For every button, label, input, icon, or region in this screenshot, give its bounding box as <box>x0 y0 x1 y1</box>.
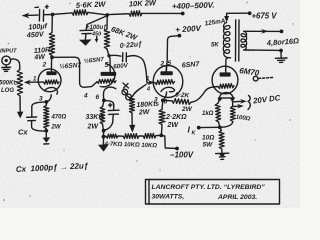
wire secondary bottom tap <box>244 49 283 58</box>
wire 180K down-arrow to feedback rail <box>129 113 135 133</box>
ground arrow below rail-left <box>98 137 109 152</box>
wire 10K to B+ terminal (thin) <box>142 12 182 14</box>
svg-text:500Kʦ: 500Kʦ <box>0 81 18 87</box>
svg-text:5·6K 2W: 5·6K 2W <box>76 0 107 10</box>
svg-text:2W: 2W <box>167 122 180 129</box>
node rail-right junction dot <box>159 134 163 138</box>
svg-text:2: 2 <box>160 61 165 68</box>
wire +200V to tube3 plates <box>166 36 179 72</box>
wire Ik measuring tap <box>188 125 219 137</box>
wire: ground-arrow feed to first filter cap <box>22 13 38 19</box>
svg-text:3: 3 <box>154 97 158 104</box>
svg-text:+675 V: +675 V <box>252 12 278 21</box>
svg-text:1: 1 <box>146 76 149 82</box>
svg-text:5W: 5W <box>203 142 214 149</box>
svg-text:4: 4 <box>146 87 150 93</box>
wire node A to resistor 5.6K <box>54 13 72 14</box>
svg-text:6·2K: 6·2K <box>175 92 191 100</box>
ground under jack <box>2 65 11 72</box>
svg-text:½6SN7: ½6SN7 <box>59 61 82 71</box>
svg-text:+100uƒ: +100uƒ <box>86 25 107 31</box>
ground under C2 <box>79 39 92 45</box>
wire pot bottom to ground arrow <box>17 96 24 118</box>
capacitor C2 +100uF 450 (decoupler) <box>80 25 107 43</box>
node B junction dot <box>105 13 109 17</box>
node V1b cathode top junction dot <box>102 99 106 103</box>
svg-text:5: 5 <box>105 62 109 69</box>
svg-text:4W: 4W <box>33 54 46 62</box>
svg-text:+ 200V: + 200V <box>175 24 202 35</box>
svg-text:10Ω: 10Ω <box>202 135 214 142</box>
wire node N1 down-left to 180K <box>133 85 147 97</box>
resistor R 2.2K 2W (to bias rail) <box>159 101 187 136</box>
svg-text:4: 4 <box>83 93 88 100</box>
wire rail to -100V terminal <box>161 136 194 160</box>
node cathode junction dot <box>218 125 222 129</box>
wire secondary top tap with arrow <box>244 29 283 34</box>
resistor R 100ohm (right cathode branch) <box>222 100 251 128</box>
node B+ terminal dot, +400-500V <box>172 1 215 16</box>
feedback rail: resistor 10K (b) <box>139 133 160 138</box>
wire node B diagonal to decoupling cap <box>86 16 106 30</box>
node cathode bottom junction dot <box>44 129 48 133</box>
scribble (crossed-out pin notes) near V1b <box>122 83 132 100</box>
resistor R 33K 2W (V1b cathode) <box>86 101 105 131</box>
node grid network N1 with arrow into V2 grid <box>146 76 155 93</box>
capacitor Cx (cathode bypass, left loop) <box>18 102 45 137</box>
transformer core <box>236 20 240 61</box>
feedback rail: resistor 4.7K <box>104 134 119 138</box>
svg-text:2W: 2W <box>138 109 151 117</box>
node +200V terminal <box>175 24 202 38</box>
node rail-left junction dots <box>102 129 106 133</box>
svg-text:LANCROFT PTY. LTD. “LYREBIRD”: LANCROFT PTY. LTD. “LYREBIRD” <box>152 184 266 191</box>
transformer T1 primary winding 5K 125mA <box>204 18 230 58</box>
resistor R 68K 2W (stage2 plate load) <box>104 17 139 56</box>
svg-text:33Kʦ: 33Kʦ <box>86 114 105 121</box>
svg-text:5K: 5K <box>211 43 219 49</box>
svg-text:30WATTS,: 30WATTS, <box>152 194 185 201</box>
feedback rail: resistor 10K (a) <box>118 134 139 139</box>
svg-text:2·2KΩ: 2·2KΩ <box>165 114 187 121</box>
arrows to 20V DC note <box>232 93 281 109</box>
capacitor C 100uF 450V (first filter) <box>26 5 49 39</box>
resistor R 10ohm 5W (cathode to ground) <box>202 128 224 150</box>
svg-text:Cx: Cx <box>18 128 28 137</box>
wire 5.6K to node B <box>88 12 106 14</box>
scan speckles <box>3 2 294 201</box>
resistor R 470ohm 2W (V1a cathode) <box>44 102 67 131</box>
pot wiper arrow to tube1 grid <box>24 77 44 86</box>
svg-text:450V: 450V <box>26 29 46 39</box>
node V3 cathode right pin <box>231 97 235 101</box>
wire cap to node A <box>44 14 53 16</box>
title block box <box>146 180 280 205</box>
svg-text:6: 6 <box>96 94 100 101</box>
resistor R 10K 2W <box>129 0 157 16</box>
potentiometer 500K LOG <box>0 70 23 97</box>
node V1b plate junction dot <box>107 54 110 57</box>
svg-text:2: 2 <box>42 62 47 69</box>
node cathode V1a junction dot <box>45 100 49 104</box>
resistor R 110R 4W (V1a plate load) <box>33 16 54 62</box>
pentode V3 6M70 output <box>212 58 238 98</box>
svg-text:INPUT: INPUT <box>0 49 17 55</box>
node A junction dot <box>51 13 55 17</box>
resistor R 6.2K 2W (to output grid) <box>165 92 193 113</box>
ground under secondary <box>275 58 287 62</box>
resistor R 5.6K 2W <box>72 0 107 15</box>
triode V1b half 6SN7 <box>83 56 116 101</box>
ground under 10ohm 5W <box>216 149 229 159</box>
svg-text:2W: 2W <box>181 106 193 113</box>
svg-text:APRIL 2003.: APRIL 2003. <box>217 194 257 201</box>
triode V1a half 6SN7 <box>38 58 81 103</box>
svg-text:2W: 2W <box>51 125 62 131</box>
svg-text:–100V: –100V <box>170 151 194 160</box>
node V3 cathode left pin <box>218 97 222 101</box>
wire +675V terminal to transformer primary <box>224 11 277 22</box>
svg-text:LOG: LOG <box>1 88 14 94</box>
node plate V1a junction dot <box>50 56 54 60</box>
wire 6.2K to V3 grid <box>191 87 218 103</box>
svg-text:10K 2W: 10K 2W <box>129 0 157 8</box>
resistor R 1k (left cathode branch) <box>202 100 221 127</box>
capacitor C electrolytic bypass (loop right of 33K) <box>105 101 119 130</box>
label 6M70 with dashed leader <box>239 66 274 81</box>
resistor R 180K 2W (grid leak) <box>130 97 160 117</box>
svg-text:470Ω: 470Ω <box>51 115 67 121</box>
wire node B to resistor 10K <box>109 13 129 16</box>
svg-text:2W: 2W <box>87 124 100 131</box>
svg-text:1kΩ: 1kΩ <box>202 111 214 117</box>
wire V1a plate to V1b grid <box>54 57 98 99</box>
svg-text:600V: 600V <box>113 62 129 70</box>
transformer secondary winding <box>241 31 247 50</box>
input jack J1 <box>0 49 17 65</box>
svg-text:5: 5 <box>168 60 172 67</box>
triode V2 6SN7 (paralleled sections) <box>153 60 201 106</box>
svg-text:+400–500V.: +400–500V. <box>172 1 215 11</box>
wire jack to volume pot <box>11 59 20 69</box>
ground under V1a cathode <box>43 131 51 144</box>
capacitor C 0.22uF 600V coupling <box>110 41 147 80</box>
node V2 cathode junction dot <box>161 99 165 103</box>
